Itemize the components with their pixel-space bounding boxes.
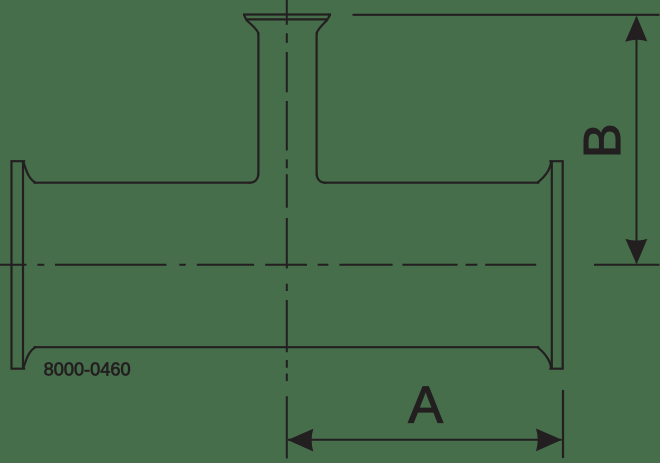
vertical centerline dashes [286, 0, 288, 381]
A right extension line [562, 390, 564, 458]
A dimension line [288, 439, 562, 441]
svg-text:A: A [408, 377, 443, 435]
B bottom arrowhead [625, 239, 647, 265]
body top line left of branch [35, 182, 250, 184]
horizontal centerline extension at right [594, 264, 660, 266]
right flange bottom weld flare [538, 348, 551, 368]
body bottom line [35, 346, 539, 348]
B top arrowhead [625, 16, 647, 42]
horizontal centerline dashes [0, 264, 536, 266]
left ferrule flange inner face [22, 162, 24, 369]
left flange bottom weld flare [23, 347, 35, 368]
branch ferrule top edge [244, 13, 330, 15]
right ferrule flange rim outline [550, 161, 562, 369]
left flange top weld flare [23, 162, 35, 183]
branch ferrule inner line [247, 18, 327, 20]
branch left bevel and neck flare [244, 15, 258, 34]
branch left fillet [249, 173, 258, 182]
branch tube right wall [316, 34, 318, 175]
branch right bevel and neck flare [317, 15, 330, 34]
A right arrowhead [536, 429, 562, 452]
svg-text:8000-0460: 8000-0460 [44, 359, 131, 379]
right flange top weld flare [538, 163, 551, 183]
body top line right of branch [326, 182, 539, 184]
branch tube left wall [257, 34, 259, 175]
B top extension line [353, 14, 660, 16]
A left arrowhead [288, 429, 314, 452]
B dimension line [636, 17, 638, 263]
left ferrule flange rim outline [12, 161, 25, 369]
vertical centerline solid extension to A dimension [286, 396, 288, 458]
right ferrule flange inner face [551, 162, 553, 369]
branch right fillet [317, 173, 326, 182]
svg-text:B: B [574, 123, 632, 158]
